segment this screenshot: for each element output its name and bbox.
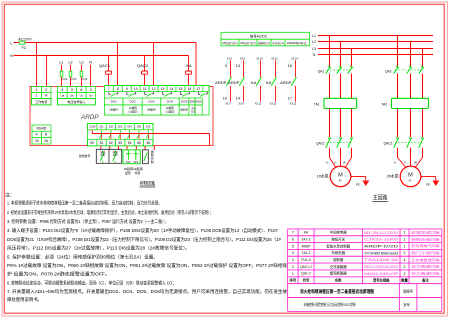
svg-text:1#故障: 1#故障 <box>129 106 137 110</box>
svg-text:主回路: 主回路 <box>373 194 388 202</box>
svg-text:塑壳断路器: 塑壳断路器 <box>330 271 348 276</box>
svg-text:图纸号: 图纸号 <box>403 289 413 294</box>
svg-text:17: 17 <box>288 97 292 101</box>
svg-text:FU2: FU2 <box>62 77 67 81</box>
svg-text:3. 控制参数 设置：P096 控制方式 设置为1（停止泵）: 3. 控制参数 设置：P096 控制方式 设置为1（停止泵），P097 运行方式… <box>7 218 168 225</box>
svg-text:护 设置为ON，P078 2#静态报警设置为OFF。: 护 设置为ON，P078 2#静态报警设置为OFF。 <box>7 271 110 278</box>
svg-text:L: L <box>36 94 38 98</box>
svg-text:COM: COM <box>89 125 96 129</box>
svg-text:L3: L3 <box>312 47 316 51</box>
svg-text:序号: 序号 <box>289 278 297 283</box>
svg-text:DO1: DO1 <box>111 100 118 104</box>
svg-text:X3.10: X3.10 <box>256 58 263 61</box>
svg-text:水箱控制·巡检控制·压力自动控制·DDC控制: 水箱控制·巡检控制·压力自动控制·DDC控制 <box>304 302 356 307</box>
svg-text:3~: 3~ <box>338 179 342 183</box>
svg-text:RS485: RS485 <box>37 126 47 130</box>
svg-text:4: 4 <box>292 251 294 255</box>
svg-text:4: 4 <box>61 88 63 92</box>
svg-text:14: 14 <box>170 87 174 91</box>
svg-text:QAC2: QAC2 <box>384 141 393 145</box>
svg-text:2: 2 <box>45 88 47 92</box>
svg-text:N: N <box>89 60 92 64</box>
svg-text:DI6: DI6 <box>146 125 151 129</box>
svg-text:W: W <box>414 161 417 165</box>
svg-text:TA1-2: TA1-2 <box>302 251 311 255</box>
svg-text:FU: FU <box>22 46 27 50</box>
svg-text:智能水泵控制器: 智能水泵控制器 <box>326 243 350 248</box>
svg-text:KA: KA <box>251 80 257 85</box>
svg-text:1: 1 <box>292 272 294 276</box>
svg-text:ARDP: ARDP <box>228 80 239 85</box>
svg-text:1: 1 <box>36 88 38 92</box>
svg-text:QAC1: QAC1 <box>99 63 111 68</box>
svg-text:6: 6 <box>80 88 82 92</box>
svg-text:熔断器: 熔断器 <box>333 257 344 262</box>
svg-text:备注: 备注 <box>421 278 429 283</box>
svg-text:DI5: DI5 <box>137 125 142 129</box>
svg-text:4: 4 <box>404 258 406 262</box>
svg-text:16: 16 <box>187 87 191 91</box>
svg-text:QA1: QA1 <box>318 69 325 73</box>
svg-text:DO4: DO4 <box>167 100 174 104</box>
svg-text:X3.9: X3.9 <box>238 102 244 105</box>
svg-text:NDC1-0910 AC220V: NDC1-0910 AC220V <box>364 265 398 269</box>
svg-text:14: 14 <box>236 97 240 101</box>
svg-text:X1.6: X1.6 <box>227 58 233 61</box>
svg-text:8: 8 <box>117 87 119 91</box>
svg-text:DI3: DI3 <box>118 125 123 129</box>
svg-text:1: 1 <box>404 231 406 235</box>
svg-text:代号: 代号 <box>302 278 310 283</box>
svg-text:B: B <box>45 133 47 137</box>
svg-text:L: L <box>10 42 12 46</box>
svg-text:障处使用说明书。: 障处使用说明书。 <box>7 296 42 303</box>
svg-text:2#泵运行信号: 2#泵运行信号 <box>240 41 256 45</box>
svg-text:名称: 名称 <box>335 278 342 283</box>
svg-text:PE: PE <box>426 182 430 186</box>
svg-text:9: 9 <box>126 87 128 91</box>
svg-text:U: U <box>326 161 328 165</box>
svg-text:9: 9 <box>225 64 227 68</box>
svg-text:L2: L2 <box>312 40 316 44</box>
svg-text:信号AC/DC: 信号AC/DC <box>250 33 268 38</box>
svg-text:TA1: TA1 <box>314 103 320 107</box>
svg-text:交流接触器: 交流接触器 <box>330 264 348 269</box>
svg-text:QAC1-2: QAC1-2 <box>300 265 312 269</box>
svg-text:复位: 复位 <box>100 153 105 157</box>
svg-text:DI1: DI1 <box>99 125 104 129</box>
svg-text:2: 2 <box>404 272 406 276</box>
svg-text:2: 2 <box>404 238 406 242</box>
svg-text:10: 10 <box>134 87 138 91</box>
svg-text:型号及规格: 型号及规格 <box>373 278 390 283</box>
svg-text:Ub: Ub <box>70 94 74 98</box>
svg-text:5: 5 <box>292 244 294 248</box>
svg-text:W: W <box>343 161 346 165</box>
svg-text:DO2: DO2 <box>130 100 137 104</box>
svg-text:1#2#泵停止: 1#2#泵停止 <box>287 41 309 45</box>
svg-text:Un: Un <box>89 94 93 98</box>
svg-text:16: 16 <box>288 64 292 68</box>
svg-text:1#水泵: 1#水泵 <box>317 174 329 179</box>
svg-text:QAC1: QAC1 <box>316 141 325 145</box>
svg-text:西门子或同等: 西门子或同等 <box>411 250 440 255</box>
svg-text:(可编程): (可编程) <box>166 110 175 114</box>
svg-text:FU3: FU3 <box>71 77 76 81</box>
svg-text:2#故障: 2#故障 <box>166 106 174 110</box>
svg-text:DO6设置为21（1#2#综合故障）。P108 DI1设置为: DO6设置为21（1#2#综合故障）。P108 DI1设置为22（压力控制下限信… <box>7 236 282 243</box>
svg-text:页号: 页号 <box>403 302 409 307</box>
svg-text:NDM1-630c/3P: NDM1-630c/3P <box>364 272 399 276</box>
svg-text:ARDP: ARDP <box>215 80 226 85</box>
svg-text:7: 7 <box>108 87 110 91</box>
svg-text:25: 25 <box>35 139 39 143</box>
svg-text:施耐德或同等: 施耐德或同等 <box>411 236 440 241</box>
svg-text:就地信号: 就地信号 <box>79 153 91 158</box>
svg-text:消火栓和喷淋稳压第一至二备直接启动原理图: 消火栓和喷淋稳压第一至二备直接启动原理图 <box>300 288 374 295</box>
svg-text:L1: L1 <box>60 60 64 64</box>
svg-text:1. 本原理图适用于进水栓和喷淋稳压第一至二备直接启动控制柜: 1. 本原理图适用于进水栓和喷淋稳压第一至二备直接启动控制柜，压力自动控制，压力… <box>7 200 162 207</box>
svg-text:中间继电器: 中间继电器 <box>330 230 348 235</box>
svg-text:KA: KA <box>266 80 272 85</box>
svg-text:欧姆龙或同等: 欧姆龙或同等 <box>411 230 440 235</box>
svg-text:FU1-4: FU1-4 <box>301 258 310 262</box>
svg-text:2#运行: 2#运行 <box>147 108 156 112</box>
svg-text:2: 2 <box>404 251 406 255</box>
svg-text:X3.15: X3.15 <box>290 102 297 105</box>
svg-text:Ua: Ua <box>60 94 64 98</box>
svg-text:SF2: SF2 <box>133 160 138 164</box>
svg-text:ARDP: ARDP <box>80 114 99 121</box>
svg-text:50: 50 <box>90 141 94 145</box>
svg-text:7: 7 <box>292 231 294 235</box>
svg-text:11: 11 <box>143 87 147 91</box>
svg-text:7. 开关量输入ADI1~DI6均为无源接点。开关量输出DO: 7. 开关量输入ADI1~DI6均为无源接点。开关量输出DO2、DO4、DO5、… <box>7 288 288 295</box>
svg-text:3: 3 <box>292 258 294 262</box>
svg-text:17: 17 <box>196 87 200 91</box>
svg-text:TA2: TA2 <box>381 103 387 107</box>
svg-text:V: V <box>334 161 336 165</box>
svg-text:N: N <box>10 54 13 58</box>
svg-text:DI2: DI2 <box>109 125 114 129</box>
svg-text:ARDP-D/2D: ARDP-D/2D <box>364 245 398 249</box>
svg-text:26: 26 <box>44 139 48 143</box>
svg-text:热继电器: 热继电器 <box>331 250 345 255</box>
svg-text:DO6: DO6 <box>196 100 203 104</box>
svg-text:X3.11: X3.11 <box>255 102 262 105</box>
svg-text:起泵: 起泵 <box>125 170 131 175</box>
svg-text:FU4: FU4 <box>82 77 87 81</box>
svg-text:13: 13 <box>236 64 240 68</box>
svg-text:SF1-2: SF1-2 <box>302 237 311 241</box>
svg-text:QA2: QA2 <box>385 69 392 73</box>
svg-text:注：: 注： <box>5 191 15 198</box>
svg-text:制: 制 <box>151 160 154 164</box>
svg-text:V: V <box>404 161 406 165</box>
svg-text:故障信号: 故障信号 <box>258 41 271 45</box>
svg-text:3~: 3~ <box>408 179 412 183</box>
svg-text:QA1-2: QA1-2 <box>301 272 311 276</box>
svg-text:2#水泵: 2#水泵 <box>387 174 399 179</box>
svg-text:复位: 复位 <box>113 153 118 157</box>
svg-text:51: 51 <box>100 141 104 145</box>
svg-text:Uc: Uc <box>80 94 84 98</box>
svg-text:6: 6 <box>292 238 294 242</box>
svg-text:ARDP: ARDP <box>280 80 291 85</box>
svg-text:水位信号: 水位信号 <box>272 41 285 45</box>
svg-text:6. 故障联动设定综合，可联动报警系统联动输出。现场（C），: 6. 故障联动设定综合，可联动报警系统联动输出。现场（C），单位记录（SR）联动… <box>7 279 176 286</box>
svg-text:DI4: DI4 <box>128 125 133 129</box>
svg-text:工作电源: 工作电源 <box>35 99 47 104</box>
svg-text:4. 输入端子设置：P104 DI2设置为"9（1#过载故障: 4. 输入端子设置：P104 DI2设置为"9（1#过载故障保护），P105 D… <box>7 227 279 234</box>
svg-text:U: U <box>394 161 396 165</box>
svg-text:X3.8: X3.8 <box>240 58 246 61</box>
svg-text:L1: L1 <box>312 34 316 38</box>
svg-text:X3.12: X3.12 <box>271 58 278 61</box>
svg-text:1#泵运行信号: 1#泵运行信号 <box>222 41 238 45</box>
svg-text:5. 保护参数设置：必须（24位）用传感保护到30档位（第七: 5. 保护参数设置：必须（24位）用传感保护到30档位（第七孔5A）设置。 <box>7 253 158 260</box>
svg-text:56: 56 <box>146 141 150 145</box>
svg-text:德力西或同等: 德力西或同等 <box>411 264 440 269</box>
svg-text:15: 15 <box>179 87 183 91</box>
svg-text:DO3: DO3 <box>148 100 155 104</box>
svg-text:MY-2NJ-D 220V: MY-2NJ-D 220V <box>364 231 399 235</box>
svg-text:L3: L3 <box>80 60 84 64</box>
svg-text:3: 3 <box>90 88 92 92</box>
svg-text:54: 54 <box>128 141 132 145</box>
svg-text:X3.14: X3.14 <box>291 58 298 61</box>
svg-text:CJX22-11P/b: CJX22-11P/b <box>364 238 398 242</box>
svg-text:(可编程): (可编程) <box>129 110 138 114</box>
svg-text:X1.7: X1.7 <box>225 102 231 105</box>
svg-text:1#运行: 1#运行 <box>109 108 118 112</box>
svg-text:1: 1 <box>404 244 406 248</box>
svg-text:ARDP: ARDP <box>301 244 311 248</box>
svg-text:QAC2: QAC2 <box>137 63 149 68</box>
svg-text:12: 12 <box>152 87 156 91</box>
svg-text:2: 2 <box>404 265 406 269</box>
svg-text:停泵: 停泵 <box>135 170 141 175</box>
svg-text:53: 53 <box>118 141 122 145</box>
svg-text:安科瑞电气同等: 安科瑞电气同等 <box>411 243 440 248</box>
svg-text:L2: L2 <box>69 60 73 64</box>
svg-text:正泰电器或同等: 正泰电器或同等 <box>411 257 440 262</box>
svg-text:SF1: SF1 <box>126 160 131 164</box>
svg-text:德力西或同等: 德力西或同等 <box>411 271 440 276</box>
svg-text:PE: PE <box>356 182 360 186</box>
svg-text:13: 13 <box>161 87 165 91</box>
svg-text:3YCR4BM B5A/CadA3: 3YCR4BM B5A/CadA3 <box>364 251 398 255</box>
svg-text:2. 初始化设置前于常规住宅项目1#水泵第2水泵启动，电源指: 2. 初始化设置前于常规住宅项目1#水泵第2水泵启动，电源指示灯常亮/显示，主泵… <box>7 209 213 216</box>
svg-text:按钮开关: 按钮开关 <box>331 236 345 241</box>
svg-text:P0% 1#过载故障 设置为ON，P060 1#缺相故障 设: P0% 1#过载故障 设置为ON，P060 1#缺相故障 设置为ON，P051 … <box>7 262 288 269</box>
svg-text:电压信号输入: 电压信号输入 <box>67 99 85 104</box>
svg-text:52: 52 <box>109 141 113 145</box>
svg-text:2: 2 <box>292 265 294 269</box>
svg-text:5: 5 <box>71 88 73 92</box>
svg-text:KA: KA <box>186 63 192 68</box>
svg-text:DO5: DO5 <box>181 100 188 104</box>
svg-text:X3.13: X3.13 <box>270 102 277 105</box>
svg-text:TSA1308 3A: TSA1308 3A <box>364 258 399 262</box>
svg-text:55: 55 <box>137 141 141 145</box>
svg-text:风压异常）。P112 DI5设置为27（2#过载故障），P1: 风压异常）。P112 DI5设置为27（2#过载故障），P113 DI6设置为2… <box>7 245 190 252</box>
svg-text:10: 10 <box>223 97 227 101</box>
svg-text:数量: 数量 <box>400 278 408 283</box>
